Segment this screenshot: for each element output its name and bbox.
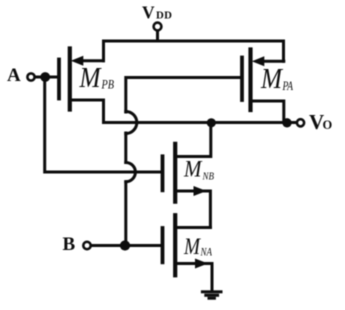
transistor M_PB gate bar xyxy=(57,60,61,99)
output Vo open terminal circle xyxy=(297,119,304,126)
M_PB PMOS arrow (points into channel) xyxy=(71,56,84,66)
wire: input A to M_PB gate xyxy=(36,76,58,79)
svg-text:NA: NA xyxy=(200,247,213,259)
M_PB source lead wire (to VDD) xyxy=(78,59,104,62)
junction dot output at Vo xyxy=(282,118,291,127)
transistor M_PA gate bar xyxy=(240,58,244,101)
wire: node A vertical down to M_NB gate line xyxy=(45,77,161,172)
VDD rail wire xyxy=(104,41,284,61)
input A open terminal circle xyxy=(27,73,34,80)
transistor M_PB channel bar xyxy=(68,49,72,110)
svg-text:M: M xyxy=(183,234,201,259)
junction dot node A xyxy=(40,72,50,82)
output node wire (y=122.5) xyxy=(104,121,297,124)
svg-text:DD: DD xyxy=(156,10,172,22)
svg-text:M: M xyxy=(260,64,283,95)
svg-text:NB: NB xyxy=(202,171,215,183)
wire hop over A line (no connection) xyxy=(126,163,136,182)
wire: node B vertical between hops xyxy=(124,133,127,163)
M_NA drain lead wire xyxy=(177,226,210,229)
svg-text:B: B xyxy=(63,234,76,255)
transistor M_NA channel bar xyxy=(173,215,177,275)
svg-text:V: V xyxy=(142,3,155,23)
wire hop over output line (no connection) xyxy=(126,112,137,134)
wire: node B vertical to B input line xyxy=(124,182,127,246)
M_PA source lead wire (to VDD rail) xyxy=(258,60,284,63)
svg-text:M: M xyxy=(183,157,203,182)
svg-text:O: O xyxy=(323,118,333,132)
svg-text:M: M xyxy=(79,63,102,94)
transistor M_PA channel bar xyxy=(248,50,252,111)
svg-text:PA: PA xyxy=(282,78,293,93)
M_NB source lead wire (down to M_NA drain) xyxy=(177,191,210,228)
junction dot output at M_NB drain xyxy=(207,118,216,127)
junction dot node B xyxy=(120,240,130,250)
svg-text:A: A xyxy=(7,65,21,86)
M_PA drain lead wire (down to output node) xyxy=(253,101,284,123)
svg-text:PB: PB xyxy=(101,77,114,92)
M_NB drain lead wire (up to output node) xyxy=(177,123,211,157)
transistor M_NB gate bar xyxy=(161,156,165,190)
M_NA NMOS arrow (points right) xyxy=(195,259,208,269)
M_NA source lead wire (down to ground) xyxy=(177,264,212,291)
transistor M_NB channel bar xyxy=(173,144,177,202)
VDD open terminal circle xyxy=(154,23,162,31)
ground symbol xyxy=(201,290,223,293)
M_PB drain lead wire (to output) xyxy=(72,100,104,123)
M_PA PMOS arrow (points into channel) xyxy=(252,56,264,66)
VDD terminal stem wire xyxy=(156,32,159,42)
input B open terminal circle xyxy=(83,242,90,249)
M_NB NMOS arrow (points right) xyxy=(194,186,207,196)
transistor M_NA gate bar xyxy=(161,228,165,262)
wire: M_PA gate lead from node B vertical xyxy=(126,78,241,113)
wire: input B to M_NA gate xyxy=(92,244,161,247)
